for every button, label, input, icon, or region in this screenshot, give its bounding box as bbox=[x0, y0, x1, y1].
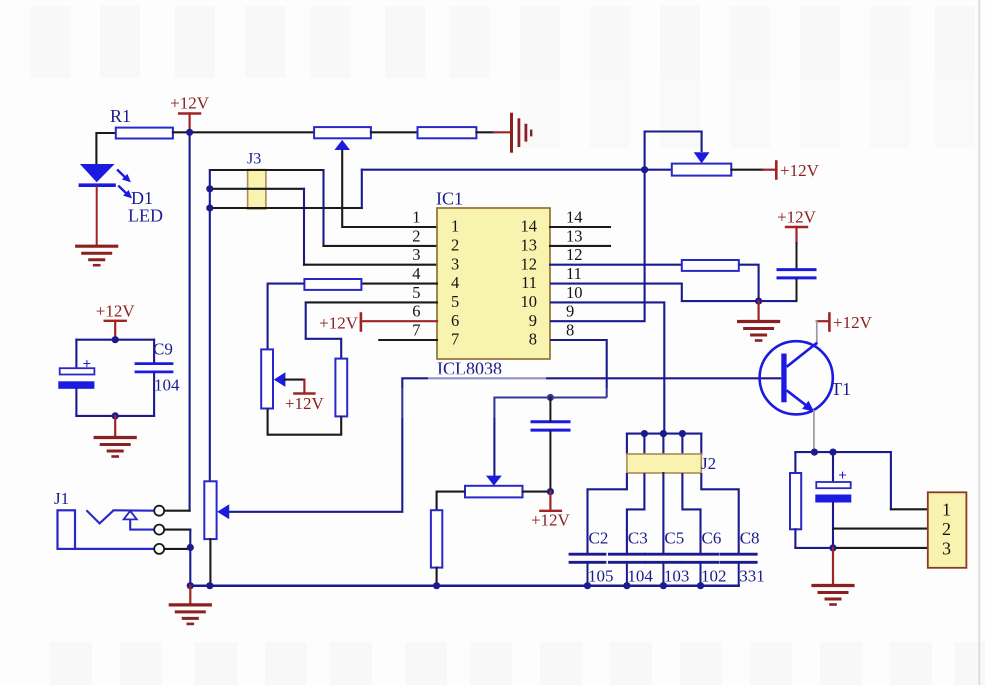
svg-text:+12V: +12V bbox=[531, 511, 571, 530]
node C12 top junction bbox=[547, 394, 554, 401]
node J2 bus b bbox=[660, 430, 667, 437]
wire C6 bottom lead bbox=[700, 564, 702, 586]
svg-text:+12V: +12V bbox=[319, 313, 359, 332]
wire VR2 right to +12V bbox=[731, 169, 763, 171]
wire R5 right lead down to ground node bbox=[739, 265, 759, 301]
svg-text:5: 5 bbox=[412, 283, 420, 302]
wire transistor base bus from VR5 wiper bbox=[229, 378, 782, 512]
node emitter rail right bbox=[829, 449, 836, 456]
potentiometer VR1 bbox=[314, 127, 371, 138]
wire J1 pin3 stub bbox=[164, 548, 190, 550]
wire main ground stem bbox=[189, 586, 191, 603]
wire C3 bottom lead bbox=[626, 564, 628, 586]
wire left vertical bus from J3 down to pot VR5 bbox=[209, 170, 211, 481]
LED light arrow 1 bbox=[117, 170, 126, 179]
ground at pin11 node bbox=[739, 320, 779, 323]
wire VR1 wiper to IC1 pin 1 bbox=[342, 150, 437, 227]
wire C9 ground stem bbox=[114, 416, 116, 435]
wire C8 bottom lead bbox=[738, 564, 740, 586]
wire VR4 left lead down to R7 bbox=[437, 492, 465, 511]
svg-text:14: 14 bbox=[521, 217, 538, 236]
svg-text:C2: C2 bbox=[589, 529, 609, 548]
capacitor C5 bbox=[646, 553, 681, 556]
resistor R7 vertical bbox=[431, 510, 442, 567]
node pin11/R5/C10 ground junction bbox=[755, 298, 762, 305]
wire bottom loop joining VR3 and R4 bbox=[268, 409, 342, 435]
svg-text:J1: J1 bbox=[54, 489, 69, 508]
ground under LED bbox=[77, 245, 117, 248]
edge artifact right bbox=[979, 0, 981, 685]
capacitor C8 bbox=[721, 553, 756, 556]
wire T1 emitter rail bbox=[795, 451, 891, 453]
wire IC1 pin 5 left lead to R4 bbox=[306, 301, 437, 303]
capacitor C10 bbox=[778, 268, 815, 271]
watermark fade over base wire bbox=[428, 374, 546, 384]
node ground bus under C5 bbox=[660, 582, 667, 589]
svg-text:7: 7 bbox=[451, 330, 459, 349]
wire C9 bottom lead bbox=[153, 373, 155, 416]
resistor R1 bbox=[116, 128, 173, 139]
wire FM node horizontal to VR4 wiper bbox=[494, 398, 606, 477]
capacitor C6 bbox=[683, 553, 718, 556]
node ground bus / VR5 bbox=[206, 582, 213, 589]
node J2 bus c bbox=[679, 430, 686, 437]
wire R3 left lead down to VR3 bbox=[268, 284, 305, 350]
svg-text:6: 6 bbox=[412, 302, 420, 321]
wire J2 pin3 to C5 bbox=[662, 473, 664, 554]
resistor R3 on pin 4 bbox=[304, 279, 361, 290]
wire IC1 pin 9 up to top bus bbox=[550, 171, 645, 321]
svg-text:J3: J3 bbox=[247, 151, 261, 168]
potentiometer VR2 bbox=[672, 164, 732, 176]
svg-text:3: 3 bbox=[942, 539, 951, 559]
svg-text:2: 2 bbox=[942, 519, 951, 539]
wire IC1 pin 13 stub bbox=[550, 245, 610, 247]
svg-text:1: 1 bbox=[412, 207, 420, 226]
svg-text:2: 2 bbox=[412, 226, 420, 245]
wire R1 left lead down to LED anode bbox=[96, 133, 115, 164]
connector J1 jack body bbox=[58, 510, 76, 549]
wire C9 top rail bbox=[76, 339, 154, 341]
wire C10 bottom lead bbox=[796, 279, 798, 301]
wire emitter rail to CON3 pin 1 bbox=[890, 452, 892, 509]
svg-text:331: 331 bbox=[739, 567, 765, 586]
wire electrolytic C1 top lead bbox=[75, 340, 77, 368]
svg-text:6: 6 bbox=[451, 311, 459, 330]
wire J1 pin2 down to pin3 node bbox=[189, 530, 191, 548]
wire C12 bottom lead bbox=[549, 432, 551, 492]
wire loop pin9 node to VR2 wiper bbox=[645, 132, 702, 170]
node junction +12V rail bbox=[186, 129, 193, 136]
svg-text:C9: C9 bbox=[153, 340, 173, 359]
node emitter rail left bbox=[811, 449, 818, 456]
svg-text:2: 2 bbox=[451, 236, 459, 255]
svg-text:104: 104 bbox=[154, 376, 180, 395]
wire R7 bottom lead bbox=[436, 568, 438, 586]
svg-text:11: 11 bbox=[566, 264, 582, 283]
wire electrolytic C1 bottom lead bbox=[75, 389, 77, 416]
J1 terminal circle 1 bbox=[154, 506, 164, 516]
svg-text:1: 1 bbox=[942, 500, 951, 520]
wire +12V rail: R1 to pot VR1 bbox=[173, 131, 314, 133]
node J3 left middle bbox=[206, 185, 213, 192]
wire main ground bus bbox=[190, 584, 738, 587]
svg-text:4: 4 bbox=[451, 273, 459, 292]
node ground bus / ground stem bbox=[187, 582, 194, 589]
wire IC1 pin 14 stub bbox=[550, 226, 610, 228]
wire J2 pin1 to C2 bbox=[588, 473, 627, 554]
wire IC1 pin 11 to ground node bbox=[550, 284, 797, 302]
power +12V below VR4 bbox=[549, 492, 551, 510]
svg-text:13: 13 bbox=[566, 226, 583, 245]
svg-text:C6: C6 bbox=[702, 529, 722, 548]
wire J2 bus stubs bbox=[626, 434, 628, 454]
rotated ground right of R2 bbox=[510, 114, 513, 151]
svg-text:3: 3 bbox=[412, 245, 420, 264]
wire T1 collector lead bbox=[816, 321, 818, 344]
wire J1 sleeve to pin 3 circle bbox=[75, 548, 154, 550]
node C9 bottom rail bbox=[112, 412, 119, 419]
svg-text:8: 8 bbox=[529, 330, 537, 349]
svg-text:104: 104 bbox=[627, 567, 653, 586]
wire VR1 to R2 bbox=[371, 131, 418, 133]
connector CON3 bbox=[928, 492, 967, 568]
svg-text:103: 103 bbox=[664, 567, 690, 586]
resistor R5 bbox=[682, 260, 739, 271]
resistor R2 bbox=[418, 127, 477, 138]
wire C9 bottom rail bbox=[76, 415, 154, 417]
wire R2 to ground bbox=[476, 131, 493, 133]
wire long top bus bbox=[362, 169, 672, 171]
wire J3 top row to IC1 pin 2 bbox=[210, 169, 324, 171]
potentiometer VR3 vertical bbox=[261, 349, 273, 408]
ground under C9 bbox=[95, 436, 135, 439]
node ground bus under C6 bbox=[697, 582, 704, 589]
svg-text:13: 13 bbox=[521, 236, 538, 255]
svg-text:T1: T1 bbox=[831, 379, 851, 399]
capacitor C9 bbox=[136, 362, 172, 365]
power +12V top rail bbox=[179, 112, 200, 114]
wire VR3 wiper to +12V bbox=[285, 379, 305, 381]
wire C2 bottom lead bbox=[587, 564, 589, 586]
wire LED cathode to ground bbox=[96, 187, 98, 244]
power +12V above C9 bbox=[105, 320, 126, 322]
potentiometer VR5 vertical bbox=[204, 481, 216, 539]
wire bottom output rail to CON3 pin 3 bbox=[795, 547, 833, 549]
wire IC1 pin 7 stub bbox=[379, 339, 437, 341]
svg-text:5: 5 bbox=[451, 292, 459, 311]
svg-text:+12V: +12V bbox=[285, 394, 325, 413]
LED D1 bbox=[80, 164, 115, 182]
wire C9 top lead bbox=[153, 340, 155, 363]
power +12V at VR3 wiper bbox=[294, 392, 314, 394]
wire J1 tip contact bbox=[86, 510, 113, 523]
svg-text:14: 14 bbox=[566, 207, 583, 226]
svg-text:11: 11 bbox=[521, 273, 537, 292]
wire J2 pin2 to C3 bbox=[627, 473, 645, 554]
wire VR5 bottom lead bbox=[209, 539, 211, 586]
node output ground junction bbox=[829, 544, 836, 551]
svg-text:7: 7 bbox=[412, 320, 420, 339]
power +12V above C10 bbox=[786, 226, 807, 228]
svg-text:12: 12 bbox=[566, 245, 583, 264]
capacitor C2 bbox=[570, 553, 605, 556]
wire IC1 pin 8 to FM node bbox=[550, 340, 607, 398]
svg-text:IC1: IC1 bbox=[436, 189, 463, 209]
transistor T1 bbox=[760, 341, 833, 414]
node ground bus under C2 bbox=[584, 582, 591, 589]
power +12V at VR2 bbox=[775, 162, 778, 179]
background banding bbox=[30, 6, 70, 78]
LED light arrow 2 bbox=[118, 186, 127, 195]
ground main bottom bbox=[170, 603, 210, 606]
wire J1 pin2 stub bbox=[164, 529, 190, 531]
J1 ring contact arrow bbox=[124, 511, 137, 520]
wire +12V node down to jack J1 tip bbox=[189, 132, 191, 510]
wire J2 pin4 to C6 bbox=[682, 473, 700, 554]
wire J3 middle row to IC1 pin 3 bbox=[210, 188, 304, 190]
wire R6 top lead bbox=[794, 452, 796, 473]
wire IC1 pin 12 to R5 bbox=[550, 264, 682, 266]
wire output ground stem bbox=[832, 548, 834, 584]
svg-text:+12V: +12V bbox=[777, 208, 817, 227]
svg-text:9: 9 bbox=[529, 311, 537, 330]
wire VR4 right lead bbox=[523, 491, 551, 493]
J1 terminal circle 3 bbox=[154, 544, 164, 554]
svg-text:J2: J2 bbox=[701, 454, 716, 473]
wire J2 feed bus bbox=[627, 433, 701, 435]
svg-text:+12V: +12V bbox=[170, 94, 210, 113]
wire +12V to C10 bbox=[796, 243, 798, 268]
svg-text:12: 12 bbox=[521, 254, 538, 273]
svg-text:C5: C5 bbox=[664, 529, 684, 548]
svg-text:10: 10 bbox=[521, 292, 538, 311]
svg-text:C8: C8 bbox=[740, 529, 760, 548]
wire IC1 pin 10 down to J2 bbox=[550, 302, 664, 433]
wire J1 node down to ground bus bbox=[189, 548, 191, 586]
svg-text:10: 10 bbox=[566, 283, 583, 302]
node C9 top rail bbox=[112, 336, 119, 343]
svg-text:9: 9 bbox=[566, 302, 574, 321]
jumper J3 bbox=[248, 170, 266, 209]
wire R6 bottom lead bbox=[794, 529, 796, 548]
wire T1 emitter lead bbox=[813, 411, 815, 453]
svg-text:105: 105 bbox=[588, 567, 614, 586]
svg-text:+12V: +12V bbox=[833, 313, 873, 332]
J1 terminal circle 2 bbox=[154, 525, 164, 535]
node J3 left bottom bbox=[206, 204, 213, 211]
svg-text:102: 102 bbox=[701, 567, 727, 586]
svg-text:LED: LED bbox=[128, 206, 163, 226]
power +12V at T1 collector bbox=[817, 320, 829, 322]
ground at output bbox=[813, 584, 853, 587]
capacitor C12 bbox=[532, 420, 569, 423]
wire IC1 pin 4 left lead bbox=[361, 283, 437, 285]
wire J2 pin5 to C8 bbox=[701, 473, 738, 554]
svg-text:+12V: +12V bbox=[96, 302, 136, 321]
wire electrolytic C13 bottom lead bbox=[832, 503, 834, 548]
wire J3 bottom row to long top bus bbox=[210, 207, 362, 209]
wire C12 top lead bbox=[549, 398, 551, 422]
svg-text:R1: R1 bbox=[110, 106, 131, 126]
resistor R4 vertical bbox=[335, 359, 347, 417]
IC IC1 body bbox=[437, 208, 550, 359]
node VR4/C12/+12V junction bbox=[547, 488, 554, 495]
potentiometer VR4 bbox=[465, 486, 523, 498]
wire CON3 pin 2 to C13 bottom bbox=[833, 528, 928, 530]
resistor R6 vertical bbox=[790, 473, 801, 529]
svg-text:C3: C3 bbox=[628, 529, 648, 548]
wire ground node stem bbox=[757, 301, 759, 319]
svg-text:8: 8 bbox=[566, 320, 574, 339]
capacitor C3 bbox=[609, 553, 644, 556]
jumper block J2 bbox=[627, 454, 701, 473]
svg-text:3: 3 bbox=[451, 254, 459, 273]
node top bus / pin9 riser bbox=[641, 166, 648, 173]
svg-text:+12V: +12V bbox=[780, 161, 820, 180]
wire J1 pin1 stub to +12V riser bbox=[164, 510, 189, 512]
svg-text:4: 4 bbox=[412, 264, 420, 283]
node J1 pin3 bbox=[187, 544, 194, 551]
node J2 bus a bbox=[641, 430, 648, 437]
wire C5 bottom lead bbox=[662, 564, 664, 586]
node R7 on ground bus bbox=[433, 582, 440, 589]
node ground bus under C3 bbox=[623, 582, 630, 589]
wire electrolytic C13 top lead bbox=[832, 452, 834, 482]
svg-text:1: 1 bbox=[451, 217, 459, 236]
